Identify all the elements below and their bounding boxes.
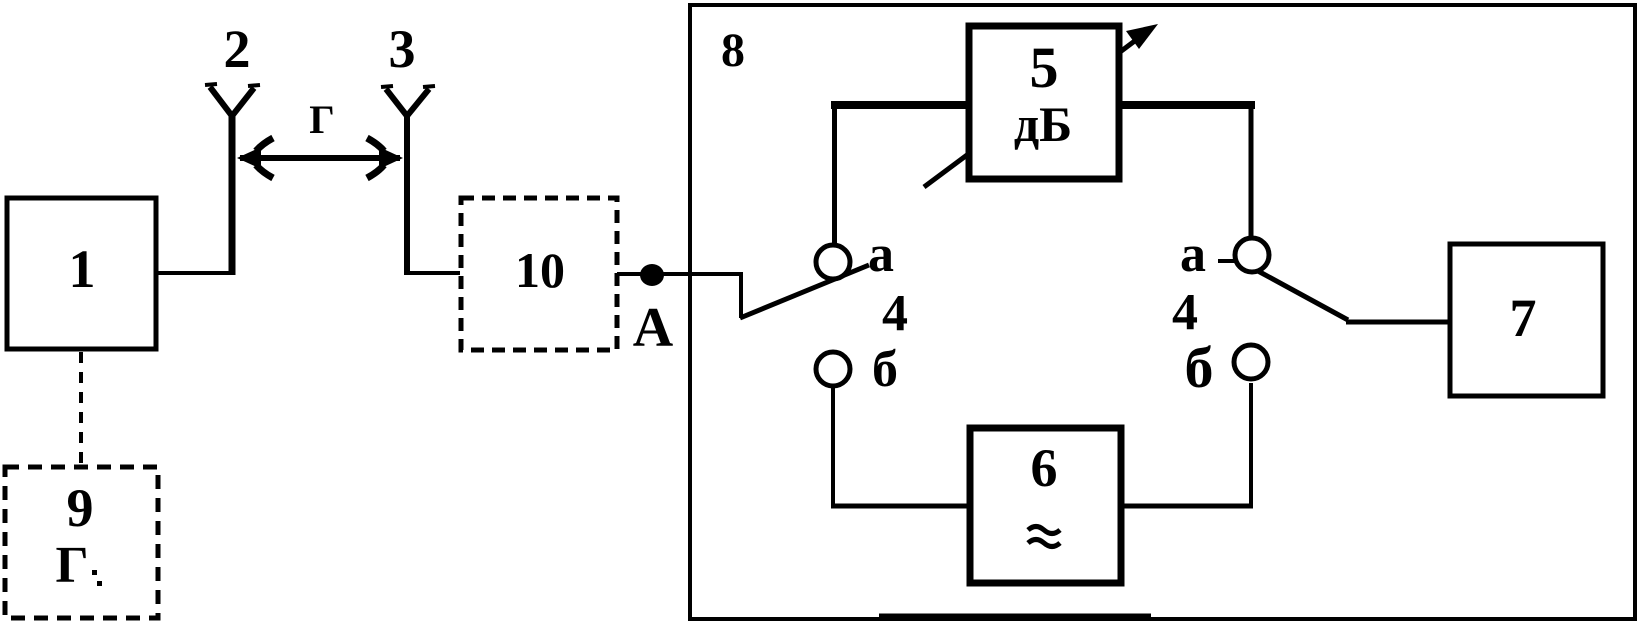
svg-text:9: 9 [67,478,94,538]
svg-text:4: 4 [882,285,908,342]
svg-text:б: б [872,341,898,398]
svg-text:б: б [1185,335,1214,400]
svg-text:8: 8 [721,24,745,77]
svg-text:a: a [1180,226,1206,283]
svg-text:A: A [633,297,674,359]
svg-text:1: 1 [69,239,96,299]
svg-text:a: a [868,226,894,283]
svg-text:дБ: дБ [1014,96,1072,152]
svg-text:6: 6 [1031,438,1058,498]
svg-text:4: 4 [1172,284,1198,341]
svg-text:5: 5 [1030,35,1059,100]
svg-text:2: 2 [224,19,251,79]
svg-text:10: 10 [515,242,565,298]
svg-text:3: 3 [389,19,416,79]
svg-text:Г: Г [309,97,334,142]
svg-text:7: 7 [1510,288,1537,348]
svg-text:Г: Г [55,537,88,594]
